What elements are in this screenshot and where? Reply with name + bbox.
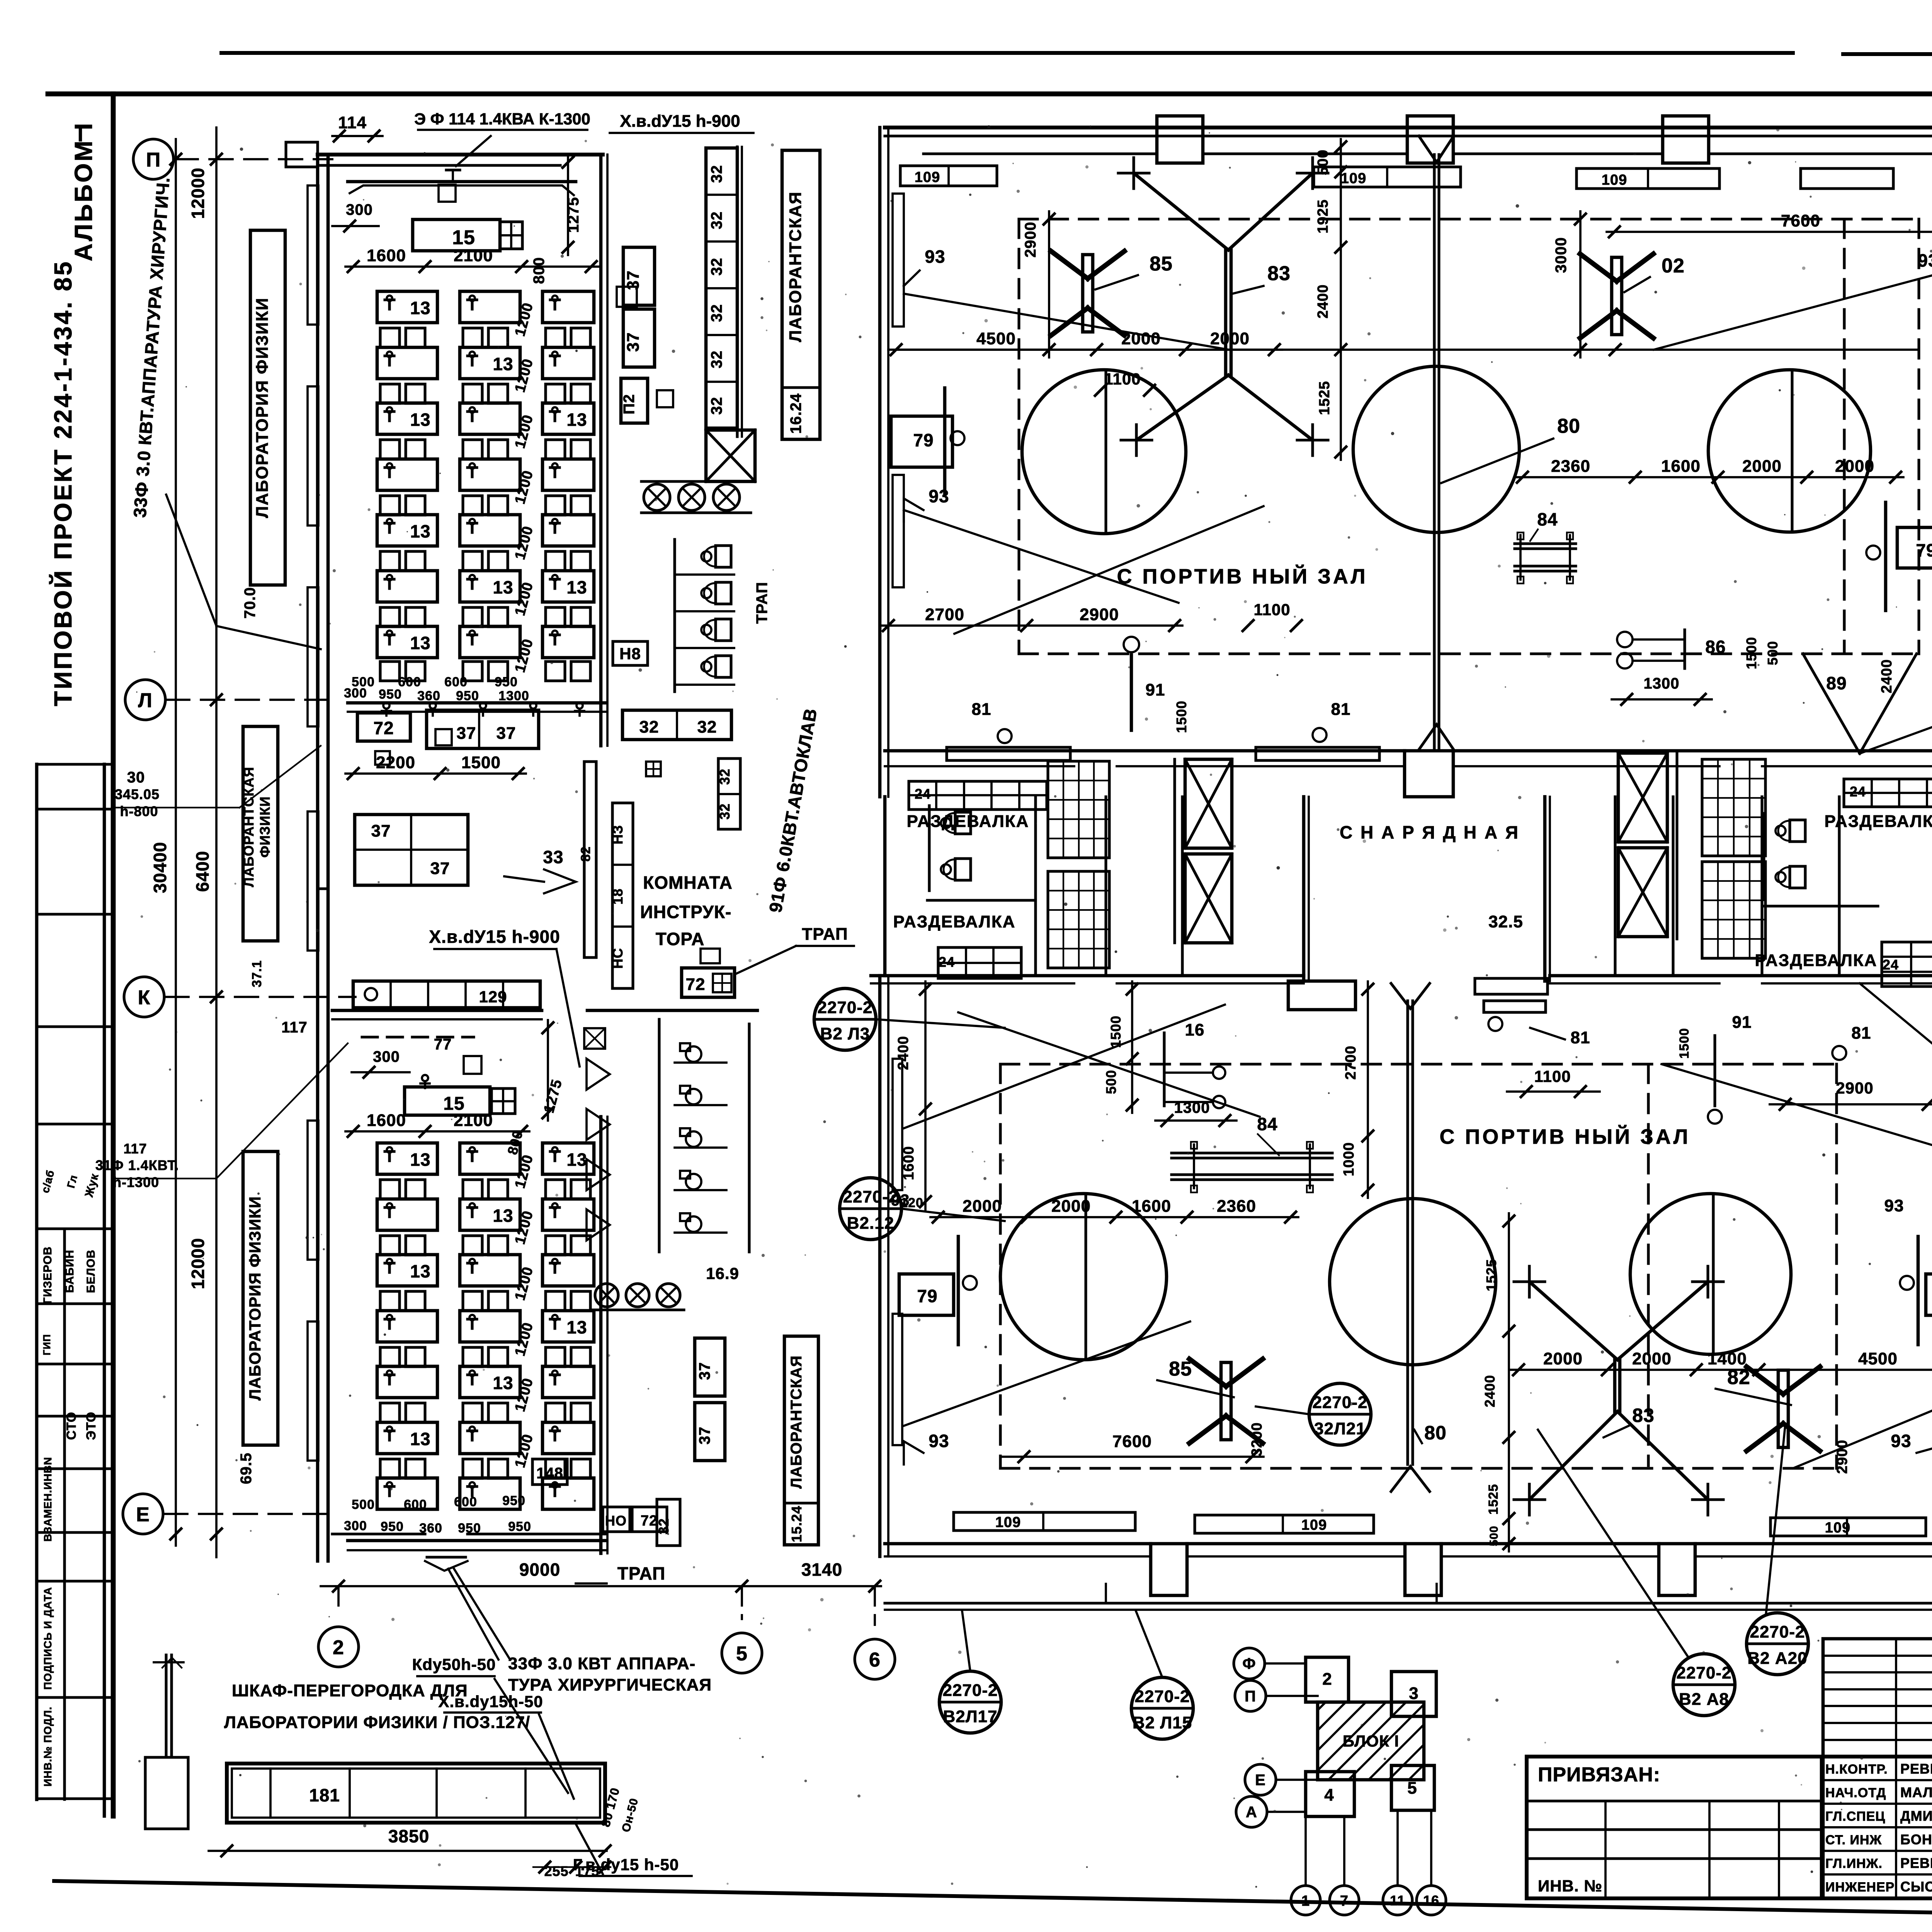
svg-text:91: 91 bbox=[1732, 1013, 1752, 1032]
axis dashdot verticals center block bbox=[1105, 1577, 1107, 1603]
svg-text:32: 32 bbox=[708, 258, 725, 276]
snowflake 82 bottom gym bbox=[1778, 1370, 1788, 1447]
svg-text:А: А bbox=[1246, 1804, 1257, 1821]
small box Yu bbox=[464, 1056, 481, 1074]
names table lower rows bbox=[1823, 1779, 1932, 1781]
svg-text:БЛОК I: БЛОК I bbox=[1343, 1732, 1399, 1750]
svg-text:ДМИТРИЕВ: ДМИТРИЕВ bbox=[1900, 1808, 1932, 1824]
svg-text:30400: 30400 bbox=[150, 842, 170, 893]
svg-text:89: 89 bbox=[1826, 673, 1847, 693]
svg-text:ЛАБОРАТОРИЯ ФИЗИКИ: ЛАБОРАТОРИЯ ФИЗИКИ bbox=[246, 1196, 264, 1401]
svg-text:79: 79 bbox=[913, 430, 934, 450]
svg-text:13: 13 bbox=[410, 633, 430, 653]
svg-text:79: 79 bbox=[917, 1286, 937, 1306]
svg-text:72: 72 bbox=[641, 1513, 658, 1529]
svg-text:h-1300: h-1300 bbox=[113, 1174, 159, 1190]
svg-text:12000: 12000 bbox=[188, 168, 208, 219]
svg-text:БОНДАРЕНКО: БОНДАРЕНКО bbox=[1900, 1832, 1932, 1847]
svg-text:32Л21: 32Л21 bbox=[1314, 1419, 1366, 1438]
key plan block 3 bbox=[1391, 1672, 1436, 1716]
svg-text:1525: 1525 bbox=[1483, 1259, 1499, 1291]
gym apparatus snowflake 82 right bbox=[1612, 257, 1622, 335]
parallel bars 84 bottom gym bbox=[1172, 1151, 1332, 1154]
svg-text:2700: 2700 bbox=[1343, 1046, 1359, 1080]
svg-text:ГИЗЕРОВ: ГИЗЕРОВ bbox=[41, 1247, 54, 1304]
vertical 32 box pair bbox=[718, 759, 740, 829]
key plan axis circle E bbox=[1245, 1764, 1276, 1795]
svg-text:93: 93 bbox=[1884, 1196, 1904, 1215]
svg-text:ПОДПИСЬ И ДАТА: ПОДПИСЬ И ДАТА bbox=[42, 1587, 54, 1690]
svg-text:16: 16 bbox=[1185, 1020, 1205, 1039]
svg-text:ЛАБОРАНТСКАЯ: ЛАБОРАНТСКАЯ bbox=[241, 767, 257, 887]
locker band verticals bbox=[1034, 797, 1037, 974]
teacher table 15 bottom vestibule bbox=[405, 1087, 490, 1115]
svg-text:70.0: 70.0 bbox=[241, 587, 259, 619]
svg-text:83: 83 bbox=[1632, 1405, 1655, 1426]
svg-text:32: 32 bbox=[717, 803, 733, 820]
names table verticals bbox=[1895, 1639, 1897, 1898]
svg-text:109: 109 bbox=[1825, 1520, 1850, 1536]
sheet top hairline bbox=[221, 51, 1793, 55]
svg-text:СТО: СТО bbox=[64, 1412, 79, 1440]
svg-text:НАЧ.ОТД: НАЧ.ОТД bbox=[1825, 1786, 1886, 1800]
svg-text:2000: 2000 bbox=[1543, 1349, 1583, 1368]
pin 91 bottom left top gym bbox=[1130, 655, 1133, 730]
E axis wall bottom of left block bbox=[332, 1532, 425, 1535]
svg-text:2: 2 bbox=[1322, 1670, 1332, 1689]
svg-text:13: 13 bbox=[410, 410, 430, 430]
key plan axis circle F bbox=[1234, 1648, 1265, 1679]
svg-text:В2 Л3: В2 Л3 bbox=[820, 1024, 870, 1043]
top gym north wall bbox=[885, 126, 1932, 129]
svg-text:117: 117 bbox=[281, 1019, 308, 1036]
svg-text:2400: 2400 bbox=[1482, 1375, 1498, 1407]
svg-text:81: 81 bbox=[1331, 700, 1351, 719]
svg-text:800: 800 bbox=[531, 257, 548, 284]
svg-text:345.05: 345.05 bbox=[115, 786, 160, 802]
axis circle L bbox=[125, 680, 165, 720]
svg-text:300: 300 bbox=[344, 1519, 367, 1533]
east corridor wall bbox=[736, 147, 738, 437]
svg-text:НЗ: НЗ bbox=[610, 825, 626, 845]
svg-text:5: 5 bbox=[1407, 1779, 1417, 1798]
K axis wall with door bbox=[332, 1009, 542, 1012]
trap door mark bottom bbox=[425, 1561, 468, 1571]
names table outer bbox=[1823, 1639, 1932, 1898]
svg-text:6400: 6400 bbox=[192, 851, 213, 892]
svg-text:П: П bbox=[1245, 1688, 1256, 1705]
parallel bars 84 top gym bbox=[1515, 542, 1576, 545]
svg-text:П2: П2 bbox=[621, 394, 638, 415]
leader circle 32L21 bbox=[1309, 1383, 1371, 1445]
svg-text:11: 11 bbox=[1390, 1893, 1405, 1908]
svg-text:2400: 2400 bbox=[1315, 284, 1331, 319]
svg-text:2000: 2000 bbox=[1210, 329, 1250, 348]
svg-text:1100: 1100 bbox=[1253, 600, 1290, 619]
svg-text:13: 13 bbox=[410, 298, 430, 318]
svg-text:ЛАБОРАТОРИИ ФИЗИКИ / ПОЗ.127/: ЛАБОРАТОРИИ ФИЗИКИ / ПОЗ.127/ bbox=[224, 1713, 530, 1732]
stamp column verticals bbox=[35, 764, 39, 1799]
svg-text:ТРАП: ТРАП bbox=[617, 1563, 665, 1583]
svg-text:Н.КОНТР.: Н.КОНТР. bbox=[1825, 1762, 1888, 1777]
svg-text:32.5: 32.5 bbox=[1488, 912, 1523, 931]
svg-text:2360: 2360 bbox=[1217, 1197, 1256, 1216]
svg-text:ЛАБОРАТОРИЯ ФИЗИКИ: ЛАБОРАТОРИЯ ФИЗИКИ bbox=[253, 297, 272, 518]
svg-text:2900: 2900 bbox=[1834, 1440, 1850, 1474]
svg-text:7: 7 bbox=[1340, 1893, 1349, 1909]
svg-text:4: 4 bbox=[1324, 1786, 1334, 1804]
south wall stubs bottom gym bbox=[1151, 1544, 1187, 1595]
svg-text:3200: 3200 bbox=[1249, 1422, 1265, 1457]
svg-text:1525: 1525 bbox=[1486, 1484, 1501, 1515]
small box 42 above bbox=[701, 949, 720, 963]
svg-text:13: 13 bbox=[566, 577, 587, 597]
scan noise speckles bbox=[1731, 763, 1733, 765]
svg-text:24: 24 bbox=[1850, 784, 1866, 799]
svg-text:300: 300 bbox=[373, 1048, 400, 1065]
west wall middle band bbox=[318, 887, 328, 890]
svg-text:1600: 1600 bbox=[1661, 457, 1701, 476]
svg-text:9000: 9000 bbox=[519, 1560, 560, 1580]
svg-text:1100: 1100 bbox=[1534, 1067, 1571, 1085]
left block exterior wall west bbox=[316, 155, 320, 1561]
svg-text:500: 500 bbox=[1103, 1070, 1119, 1094]
svg-text:24: 24 bbox=[915, 786, 931, 802]
svg-text:h-800: h-800 bbox=[120, 803, 158, 819]
svg-text:ФИЗИКИ: ФИЗИКИ bbox=[257, 796, 273, 858]
axis circle K bbox=[124, 977, 164, 1017]
svg-text:16.9: 16.9 bbox=[706, 1264, 739, 1282]
small box 20 top bbox=[439, 185, 456, 202]
svg-text:2: 2 bbox=[333, 1636, 344, 1659]
svg-text:109: 109 bbox=[915, 169, 940, 185]
svg-text:ШКАФ-ПЕРЕГОРОДКА ДЛЯ: ШКАФ-ПЕРЕГОРОДКА ДЛЯ bbox=[232, 1681, 468, 1700]
svg-text:ИНВ. №: ИНВ. № bbox=[1538, 1877, 1602, 1895]
svg-text:ТРАП: ТРАП bbox=[802, 925, 848, 944]
dashed court top gym bbox=[1019, 218, 1919, 220]
svg-text:3140: 3140 bbox=[801, 1560, 842, 1580]
svg-text:32: 32 bbox=[708, 350, 725, 369]
bottom gym west wall bbox=[878, 976, 882, 1556]
bottom gym north wall bbox=[871, 974, 1304, 978]
dim row bottom gym left 2000 2000 1600 2360 bbox=[930, 1216, 1298, 1218]
bench grid 24 mid-right bbox=[1882, 942, 1932, 986]
top gym south wall bbox=[885, 749, 1405, 753]
svg-text:114: 114 bbox=[338, 113, 367, 132]
svg-text:33: 33 bbox=[543, 847, 563, 867]
net X structure bottom gym bbox=[1613, 1360, 1617, 1412]
svg-text:32: 32 bbox=[708, 304, 725, 322]
svg-text:109: 109 bbox=[1341, 170, 1366, 187]
svg-text:1600: 1600 bbox=[367, 246, 406, 265]
svg-text:ЛАБОРАНТСКАЯ: ЛАБОРАНТСКАЯ bbox=[788, 1355, 805, 1488]
label 148 box bbox=[613, 641, 648, 665]
svg-text:1500: 1500 bbox=[1108, 1015, 1124, 1048]
svg-text:1925: 1925 bbox=[1315, 199, 1331, 234]
bench 79 left bottom gym bbox=[899, 1274, 954, 1315]
svg-text:К: К bbox=[138, 986, 151, 1009]
svg-text:С ПОРТИВ НЫЙ ЗАЛ: С ПОРТИВ НЫЙ ЗАЛ bbox=[1440, 1125, 1690, 1148]
svg-text:16.24: 16.24 bbox=[787, 393, 804, 434]
svg-text:Ф: Ф bbox=[1242, 1655, 1256, 1672]
svg-text:РАЗДЕВАЛКА: РАЗДЕВАЛКА bbox=[1755, 951, 1878, 970]
svg-text:13: 13 bbox=[566, 1317, 587, 1337]
svg-text:В2 А8: В2 А8 bbox=[1679, 1690, 1729, 1709]
classroom east wall bbox=[599, 155, 603, 746]
dims 2900 2600 bottom gym right bbox=[1770, 1103, 1932, 1105]
svg-text:77: 77 bbox=[434, 1036, 452, 1053]
svg-text:13: 13 bbox=[493, 354, 513, 374]
drawing frame top border bbox=[48, 92, 1932, 97]
box 32 small bottom corridor bbox=[657, 1499, 680, 1546]
svg-text:С ПОРТИВ НЫЙ ЗАЛ: С ПОРТИВ НЫЙ ЗАЛ bbox=[1117, 565, 1368, 588]
leader circle B2 L3 bbox=[814, 988, 876, 1050]
sheet bottom edge line bbox=[54, 1881, 1932, 1925]
svg-text:ТИПОВОЙ ПРОЕКТ 224-1-434. 85: ТИПОВОЙ ПРОЕКТ 224-1-434. 85 bbox=[49, 260, 77, 706]
svg-text:2200: 2200 bbox=[376, 753, 415, 772]
shelf boxes 37 bottom corridor bbox=[695, 1338, 725, 1396]
svg-text:3: 3 bbox=[1409, 1684, 1418, 1703]
svg-text:2000: 2000 bbox=[1742, 457, 1782, 476]
svg-text:13: 13 bbox=[410, 1429, 430, 1449]
svg-text:2100: 2100 bbox=[454, 246, 493, 265]
svg-text:32: 32 bbox=[708, 397, 725, 415]
dashed court bottom gym bbox=[1000, 1063, 1837, 1065]
court circle right bottom bbox=[1630, 1194, 1791, 1354]
small box Sh mid bbox=[375, 751, 390, 765]
mid band boxes 32 32 right bbox=[622, 710, 731, 740]
svg-text:81: 81 bbox=[972, 700, 992, 719]
dim row 1600 2100 top classroom bbox=[345, 265, 599, 268]
svg-text:2000: 2000 bbox=[963, 1197, 1002, 1216]
svg-text:15: 15 bbox=[452, 226, 475, 249]
axis circle 5 bbox=[722, 1633, 762, 1673]
svg-text:ГЛ.ИНЖ.: ГЛ.ИНЖ. bbox=[1825, 1856, 1883, 1871]
small square H8 bottom right of classroom bbox=[617, 287, 637, 307]
svg-text:1500: 1500 bbox=[1743, 637, 1759, 669]
svg-text:РАЗДЕВАЛКА: РАЗДЕВАЛКА bbox=[893, 912, 1016, 931]
svg-text:600: 600 bbox=[454, 1495, 477, 1509]
vertical dim chain x3470 bbox=[1340, 139, 1342, 460]
svg-text:37: 37 bbox=[457, 724, 476, 743]
bench line bottom of bottom classroom bbox=[348, 1539, 607, 1543]
svg-text:85: 85 bbox=[1150, 253, 1173, 275]
leader circle B2 L17 bbox=[939, 1671, 1001, 1733]
court circle left bbox=[1022, 370, 1186, 534]
box 72 grid mid corridor bbox=[682, 968, 735, 997]
svg-text:4500: 4500 bbox=[976, 329, 1016, 348]
svg-text:37: 37 bbox=[696, 1362, 713, 1380]
shelf cells NZ 18 NS bbox=[612, 803, 633, 988]
svg-text:МАЛЫШЕВА: МАЛЫШЕВА bbox=[1900, 1784, 1932, 1800]
svg-text:ЛАБОРАНТСКАЯ: ЛАБОРАНТСКАЯ bbox=[786, 191, 805, 342]
svg-text:12000: 12000 bbox=[188, 1238, 208, 1289]
svg-text:80: 80 bbox=[1424, 1422, 1447, 1444]
svg-text:СТ. ИНЖ: СТ. ИНЖ bbox=[1825, 1833, 1882, 1847]
svg-text:30: 30 bbox=[127, 769, 145, 786]
svg-text:РАЗДЕВАЛКА: РАЗДЕВАЛКА bbox=[907, 812, 1029, 831]
key plan block 4 bbox=[1306, 1772, 1354, 1816]
svg-text:37: 37 bbox=[371, 821, 391, 840]
locker band mid walls bbox=[927, 899, 1036, 901]
svg-text:7600: 7600 bbox=[1781, 211, 1820, 230]
north wall stub with radiator bbox=[1288, 981, 1355, 1010]
svg-text:2270-2: 2270-2 bbox=[843, 1187, 898, 1206]
title block outer box bbox=[1527, 1757, 1932, 1898]
laborantskaya fiziki label box bbox=[243, 726, 278, 941]
center net line bottom gym bbox=[1406, 1001, 1409, 1464]
svg-text:В2 Л15: В2 Л15 bbox=[1133, 1713, 1192, 1732]
svg-text:950: 950 bbox=[502, 1493, 526, 1508]
svg-text:13: 13 bbox=[566, 410, 587, 430]
svg-text:82: 82 bbox=[578, 846, 593, 862]
drawing frame left border bbox=[111, 94, 116, 1816]
svg-text:1525: 1525 bbox=[1316, 381, 1333, 415]
bottom gym south wall bbox=[885, 1542, 1151, 1546]
crosshatch lift box bbox=[706, 430, 755, 481]
dim 1300 top gym right bbox=[1612, 698, 1712, 701]
locker band toilets left bbox=[955, 812, 971, 834]
svg-text:129: 129 bbox=[479, 988, 507, 1006]
svg-text:500: 500 bbox=[1315, 150, 1331, 175]
stamp column row lines bbox=[37, 763, 113, 765]
svg-text:85: 85 bbox=[1169, 1358, 1192, 1380]
bottom classroom desks bbox=[377, 1143, 437, 1174]
svg-text:ГЛ.СПЕЦ: ГЛ.СПЕЦ bbox=[1825, 1809, 1885, 1824]
svg-text:500: 500 bbox=[352, 1497, 375, 1512]
svg-text:117: 117 bbox=[123, 1141, 147, 1156]
privyazan grid bbox=[1527, 1799, 1821, 1802]
dim 7600 bottom gym bbox=[1000, 1456, 1264, 1458]
label 148 box bottom bbox=[532, 1459, 567, 1485]
dashed line under K wall bbox=[362, 1036, 474, 1038]
svg-text:15.24: 15.24 bbox=[789, 1505, 804, 1542]
court circle right bbox=[1708, 370, 1871, 532]
svg-text:86: 86 bbox=[1705, 637, 1726, 657]
left block top wall bbox=[318, 153, 603, 156]
svg-text:1600: 1600 bbox=[1132, 1197, 1171, 1216]
lab fiziki label box top bbox=[250, 230, 285, 585]
svg-text:Е: Е bbox=[136, 1503, 150, 1526]
laborantskaya vertical label box top bbox=[782, 150, 820, 439]
key plan block 2 bbox=[1306, 1657, 1349, 1702]
north wall inner line segments bbox=[923, 152, 1157, 155]
svg-text:7600: 7600 bbox=[1112, 1432, 1152, 1451]
svg-text:31Ф 1.4КВТ.: 31Ф 1.4КВТ. bbox=[95, 1157, 179, 1173]
svg-text:Х.в.dy15h-50: Х.в.dy15h-50 bbox=[438, 1692, 543, 1711]
svg-text:3000: 3000 bbox=[1553, 237, 1570, 273]
snowflake 85 bottom gym bbox=[1221, 1362, 1231, 1440]
key plan axis circle A bbox=[1236, 1796, 1267, 1827]
svg-text:360: 360 bbox=[417, 689, 440, 703]
svg-text:2270-2: 2270-2 bbox=[942, 1681, 998, 1700]
court circle left bottom bbox=[1000, 1194, 1167, 1360]
leader circle B2 12 bbox=[840, 1178, 901, 1240]
svg-text:02: 02 bbox=[1662, 255, 1685, 277]
key plan block 5 bbox=[1391, 1765, 1434, 1810]
key plan axis circle P bbox=[1235, 1680, 1266, 1711]
svg-text:Н8: Н8 bbox=[619, 645, 641, 663]
wc stalls bottom right of left block bbox=[673, 539, 676, 692]
svg-text:БАБИН: БАБИН bbox=[63, 1250, 76, 1293]
svg-text:СЫСОЕВА: СЫСОЕВА bbox=[1900, 1879, 1932, 1895]
corridor line below bottom gym bbox=[885, 1602, 1932, 1604]
svg-text:950: 950 bbox=[456, 689, 479, 703]
svg-text:ГИП: ГИП bbox=[41, 1334, 53, 1355]
svg-text:93: 93 bbox=[929, 1431, 949, 1451]
svg-text:Х.в.dУ15 h-900: Х.в.dУ15 h-900 bbox=[429, 927, 560, 947]
svg-text:1500: 1500 bbox=[461, 753, 501, 772]
svg-text:1400: 1400 bbox=[1708, 1349, 1747, 1368]
svg-text:2100: 2100 bbox=[454, 1111, 493, 1130]
svg-text:ИНСТРУК-: ИНСТРУК- bbox=[640, 902, 732, 922]
leader circle B2 A20 bbox=[1747, 1613, 1808, 1675]
equip square with cross top bbox=[500, 222, 522, 249]
chair squares bottom row top classroom bbox=[380, 662, 400, 681]
south wall column stub bbox=[1405, 751, 1453, 797]
svg-text:300: 300 bbox=[346, 201, 373, 218]
axis circle E bbox=[123, 1494, 163, 1534]
v-lines to bottom right corner bbox=[1803, 654, 1860, 753]
west wall windows bottom gym bbox=[893, 1059, 902, 1190]
box 72 mid-left bbox=[357, 713, 410, 741]
svg-text:1500: 1500 bbox=[1677, 1028, 1692, 1059]
long sight lines right bbox=[1654, 263, 1932, 350]
tall narrow shelf 82 bbox=[584, 762, 596, 957]
bench line bottom of top classroom bbox=[348, 701, 607, 705]
bench grid 24 top-left bbox=[909, 781, 1047, 810]
left vertical dim chain outer 30400 bbox=[175, 139, 177, 1546]
svg-text:РЕВЕКИН: РЕВЕКИН bbox=[1900, 1761, 1932, 1777]
top wall corner stub bbox=[286, 142, 318, 167]
equip cross square bottom vestibule bbox=[492, 1088, 515, 1114]
svg-text:2270-2: 2270-2 bbox=[1676, 1663, 1731, 1682]
svg-text:950: 950 bbox=[379, 687, 402, 702]
svg-text:Е: Е bbox=[1255, 1772, 1266, 1789]
svg-text:37: 37 bbox=[497, 724, 516, 743]
svg-text:2900: 2900 bbox=[1080, 605, 1119, 624]
bench 79 right top gym bbox=[1897, 527, 1932, 568]
long sight lines left bbox=[904, 294, 1229, 350]
cabinet detail dim 3850 bbox=[209, 1850, 607, 1852]
rotated dim chain right x3905 bbox=[1508, 1213, 1510, 1551]
svg-text:1100: 1100 bbox=[1104, 370, 1141, 388]
wall bars 86 top gym bbox=[1617, 632, 1633, 647]
svg-text:ТУРА ХИРУРГИЧЕСКАЯ: ТУРА ХИРУРГИЧЕСКАЯ bbox=[508, 1675, 712, 1694]
svg-text:2900: 2900 bbox=[1836, 1079, 1873, 1097]
svg-text:300: 300 bbox=[344, 686, 367, 701]
svg-text:32: 32 bbox=[708, 165, 725, 183]
lab fiziki label box bottom bbox=[243, 1151, 278, 1445]
left vertical dim chain inner bbox=[215, 128, 218, 1557]
svg-text:2360: 2360 bbox=[1551, 457, 1590, 476]
svg-text:4500: 4500 bbox=[1858, 1349, 1898, 1368]
svg-text:5: 5 bbox=[736, 1643, 748, 1665]
center net line top gym bbox=[1433, 155, 1435, 750]
svg-text:БЕЛОВ: БЕЛОВ bbox=[85, 1250, 97, 1293]
radiators 109 bottom gym bbox=[954, 1512, 1135, 1531]
svg-text:С Н А Р Я Д Н А Я: С Н А Р Я Д Н А Я bbox=[1340, 822, 1520, 842]
svg-text:18: 18 bbox=[610, 888, 626, 905]
svg-text:АЛЬБОМ I: АЛЬБОМ I bbox=[70, 121, 97, 262]
svg-text:РАЗДЕВАЛКА: РАЗДЕВАЛКА bbox=[1825, 812, 1932, 831]
dim row 2700 2900 1100 bottom left bbox=[881, 624, 1182, 627]
svg-text:93: 93 bbox=[1891, 1431, 1911, 1451]
svg-text:НС: НС bbox=[610, 948, 626, 969]
dim row 2360 1600 2000 2000 right bbox=[1515, 476, 1903, 478]
leader circle B2 A8 bbox=[1673, 1654, 1735, 1716]
svg-text:2270-2: 2270-2 bbox=[1134, 1687, 1190, 1706]
